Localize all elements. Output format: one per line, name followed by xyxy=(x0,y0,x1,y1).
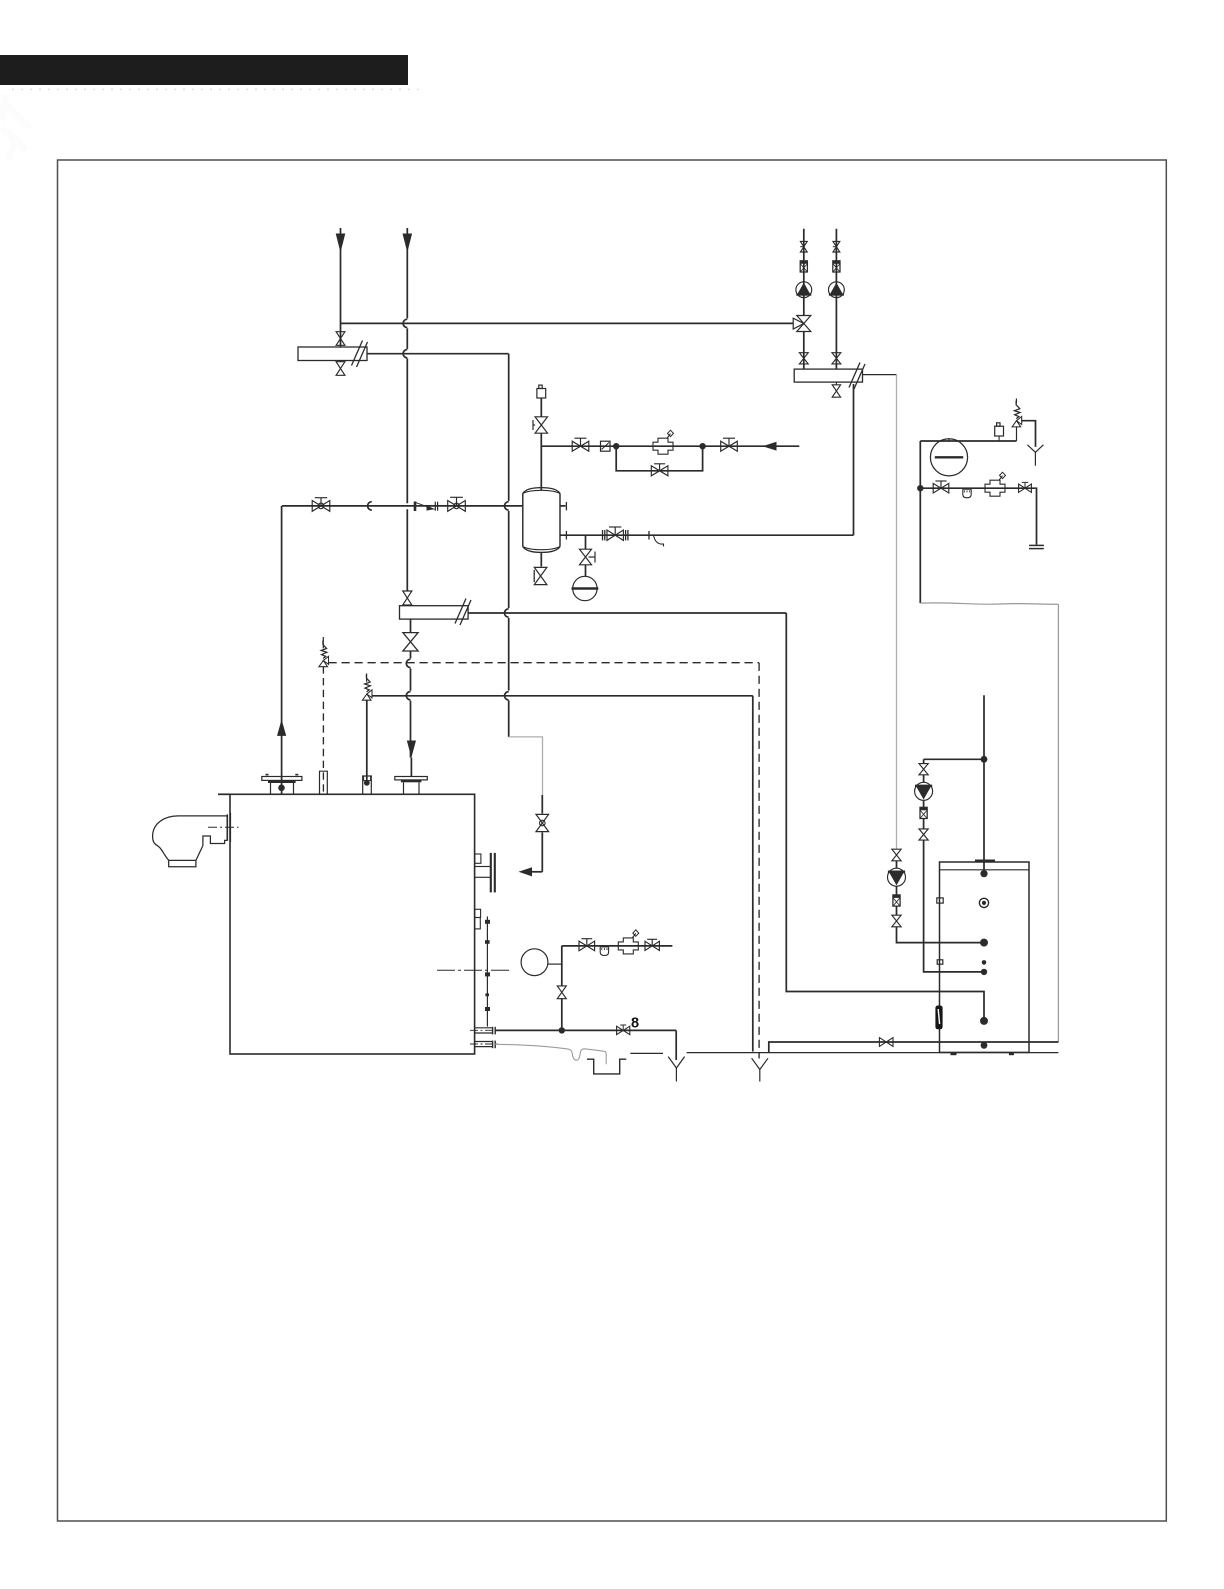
branch1 check valve xyxy=(920,807,927,818)
branch2 valve upper xyxy=(892,849,901,861)
wire: system riser 2 (x=407) xyxy=(406,228,408,318)
node: drain tee xyxy=(559,1027,565,1033)
wire: DHW tank top stub xyxy=(983,695,985,873)
tank heating element xyxy=(935,1006,942,1030)
wire: downcomer jog to boiler return-in (gray) xyxy=(509,737,543,795)
tank sensor well 1 xyxy=(937,898,943,903)
boiler top-left ledge xyxy=(218,793,230,795)
header B (system header) xyxy=(794,369,862,382)
flow arrow into boiler side flange xyxy=(519,867,533,876)
valve on fill drop xyxy=(557,986,566,999)
wire: supply-out line to separator xyxy=(282,505,523,507)
fill strainer xyxy=(600,947,608,956)
flow arrow down riser 2 xyxy=(403,234,413,253)
flow meter xyxy=(601,441,611,451)
drain hose (gray) xyxy=(495,1044,606,1064)
node: fill line tee xyxy=(917,485,923,491)
fill valve 2 xyxy=(645,941,659,950)
wire: header B slash drop to air separator xyxy=(853,384,855,535)
wire: cold water feed drop xyxy=(919,441,921,603)
hop: downcomer over header C line xyxy=(505,609,509,617)
auto air vent on expansion line xyxy=(995,426,1004,436)
branch1 valve lower xyxy=(919,829,928,840)
hop: riser2 over header A line xyxy=(403,350,407,358)
flow arrow into make-up line xyxy=(763,442,777,451)
wire: DHW loop from header C xyxy=(786,613,984,1021)
wire: boiler relief tapping riser xyxy=(366,700,368,783)
wire: boiler return riser xyxy=(410,651,412,658)
node: PRV outlet xyxy=(699,443,705,449)
valve on separator top pipe xyxy=(535,417,547,433)
wire: relief discharge drop xyxy=(752,696,754,1052)
wire: air separator top pipe xyxy=(540,398,542,417)
floor line segment xyxy=(630,1052,663,1054)
make-up shutoff valve xyxy=(572,441,589,451)
wire: dashed drop to boiler tapping xyxy=(322,666,324,792)
floor line right xyxy=(687,1052,1059,1054)
funnel 2 (dashed line drain) xyxy=(752,1058,760,1069)
fill valve B xyxy=(1019,484,1032,492)
expansion tank xyxy=(948,438,950,441)
boiler supply flange (top) xyxy=(262,777,302,781)
zone1 isolation valve xyxy=(800,241,807,252)
bypass valve xyxy=(651,466,668,476)
wire: boiler drain line xyxy=(495,1029,676,1031)
check valve on supply-out xyxy=(414,502,417,512)
flanged ball valve on separator outlet xyxy=(607,530,623,540)
drain valve 8 xyxy=(617,1026,630,1034)
branch2 check valve xyxy=(893,895,900,906)
boiler body xyxy=(230,794,475,1054)
wire: boiler supply riser xyxy=(281,506,283,794)
flow arrow into boiler top xyxy=(407,741,416,758)
air separator right capped stub xyxy=(560,505,566,507)
ball valve on supply-out xyxy=(448,501,466,512)
funnel 1 (floor drain) xyxy=(668,1057,676,1068)
boiler centerline xyxy=(437,969,509,971)
node: boiler supply tapping xyxy=(278,785,285,792)
zone2 lower valve xyxy=(832,353,841,364)
drain valve below header A xyxy=(336,362,345,376)
floor drain pit xyxy=(587,1059,626,1074)
header A break slashes xyxy=(352,341,363,366)
wire: riser1 to header xyxy=(340,331,342,348)
boiler return flange (top) xyxy=(395,777,428,780)
boiler drain pipe (lower) xyxy=(475,1041,493,1043)
fill shutoff valve xyxy=(579,941,595,951)
drain air-gap bars xyxy=(1029,544,1044,546)
faint watermark fragment left margin xyxy=(2,95,30,160)
valve above header C xyxy=(406,591,408,592)
node: tank port D xyxy=(982,960,987,965)
wire: header C to DHW loop xyxy=(468,612,786,614)
hop: return riser over dashed relief line xyxy=(406,659,410,667)
wire: drain drop to funnel xyxy=(675,1030,677,1060)
wire: branch2 to tank port xyxy=(897,927,985,943)
relief valve RV1 (dashed circuit) xyxy=(322,637,324,648)
wire: header B to DHW pump drop (gray) xyxy=(863,374,897,376)
wire: relief discharge horizontal xyxy=(372,695,753,697)
supply-out gate valve xyxy=(312,501,330,512)
boiler drain pipe (upper) xyxy=(475,1027,493,1029)
svg-text:8: 8 xyxy=(631,1016,639,1032)
wire: dashed relief line drop xyxy=(758,663,760,1059)
zone2 circulator pump xyxy=(829,282,845,298)
header C (boiler header) xyxy=(400,606,469,619)
page frame xyxy=(58,160,1167,1521)
hop: downcomer over supply-out line xyxy=(505,502,509,510)
air separator tank xyxy=(522,494,524,547)
branch1 pump xyxy=(915,782,933,800)
flow arrow up supply riser xyxy=(277,719,286,736)
hop: riser2 over supply main xyxy=(403,319,407,327)
wire: cold fill line xyxy=(920,487,1035,489)
funnel 3 (relief drain) xyxy=(1027,445,1035,453)
fill valve A xyxy=(933,483,949,493)
valve on boiler return-in xyxy=(536,814,549,831)
wire: header A to downcomer xyxy=(367,353,509,355)
valve on separator drop xyxy=(580,549,592,565)
wire: zone line 1 (x=804) xyxy=(803,229,805,316)
balancing valve below header C xyxy=(403,633,418,651)
wire: cold water feed right drop (gray) xyxy=(1057,604,1059,1042)
separator drain valve xyxy=(540,553,542,567)
node: tank port C xyxy=(980,939,988,947)
node: tank port A xyxy=(980,870,987,877)
wire: expansion line xyxy=(920,440,1016,442)
wire: header C down to boiler return riser xyxy=(410,619,412,633)
wire: supply main to 3-way valve xyxy=(341,322,794,324)
boiler pressure gauge xyxy=(521,949,548,976)
auto air vent on separator xyxy=(537,389,546,399)
pipe break mark on supply-out line xyxy=(368,502,372,510)
fill PRV xyxy=(985,480,1005,496)
drain valve below header B xyxy=(835,382,837,384)
node: PRV inlet xyxy=(613,443,619,449)
flow arrow down riser 1 xyxy=(336,234,346,253)
relief valve RV2 (boiler relief) xyxy=(366,674,368,682)
node: branch tee xyxy=(981,756,988,763)
DHW tank drain valve xyxy=(879,1038,893,1047)
node: tank port G xyxy=(981,1042,988,1049)
wire: downcomer (x=508) xyxy=(508,354,510,501)
zone2 isolation valve xyxy=(833,241,840,252)
temperature gauge under separator xyxy=(585,565,587,576)
wire: RV3 discharge xyxy=(1021,421,1035,447)
hop: return riser over relief discharge line xyxy=(406,692,410,700)
tank port B (aquastat) xyxy=(979,898,988,907)
wire: DHW tank drain line xyxy=(769,1042,1059,1053)
header A (low-loss header) xyxy=(298,347,367,361)
tank sensor well 2 xyxy=(937,960,943,964)
wire: branch1 to tank mid port xyxy=(924,840,984,972)
wire: make-up water line xyxy=(541,445,799,447)
branch2 pump xyxy=(888,868,906,886)
zone1 circulator pump xyxy=(796,282,812,298)
boiler tapping 2 (relief, dashed) xyxy=(320,771,328,794)
hop: downcomer over relief discharge xyxy=(505,692,509,700)
pressure reducing valve xyxy=(653,438,673,454)
burner assembly xyxy=(153,816,228,867)
wire: gauge/fill drop xyxy=(561,946,563,1031)
wire: PRV bypass xyxy=(616,446,702,471)
wire: zone1 valve to header B xyxy=(803,332,805,370)
zone1 lower valve xyxy=(799,353,808,364)
wire: cold water feed jog (gray) xyxy=(920,603,1058,604)
valve above header A xyxy=(336,332,345,346)
relief valve RV3 xyxy=(1015,399,1017,404)
make-up valve 2 xyxy=(721,441,738,451)
boiler side flange (DHW return in) xyxy=(475,854,481,863)
fill strainer B xyxy=(963,489,971,498)
3-way mixing valve xyxy=(797,316,811,332)
wire: separator drop line xyxy=(585,535,587,549)
wire: tank pump branch1 top xyxy=(924,758,984,760)
header C break slashes xyxy=(455,599,466,624)
zone1 check valve xyxy=(800,261,807,272)
node: tank port E xyxy=(981,969,987,975)
wire: zone line 2 (x=836) xyxy=(835,229,837,369)
burner centerline xyxy=(208,826,239,828)
title bar (redacted) xyxy=(0,55,408,85)
boiler tapping 3 (relief) xyxy=(363,776,372,794)
wire: tank return drop to boiler xyxy=(541,795,543,814)
DHW indirect tank xyxy=(940,862,1030,1052)
zone2 check valve xyxy=(833,261,840,272)
wire: system riser 1 (x=340) xyxy=(340,228,342,331)
wire: boiler fill line xyxy=(562,945,673,947)
node: tank port F xyxy=(980,1017,988,1025)
union and drain hook xyxy=(648,531,650,540)
water gauge set on boiler xyxy=(475,909,481,917)
faint dotted rule under title bar xyxy=(12,89,419,91)
wire: dashed relief line horizontal xyxy=(329,662,760,664)
header B break slashes xyxy=(849,363,860,388)
fill pressure reducing valve xyxy=(618,938,638,954)
branch1 valve upper xyxy=(919,764,928,775)
branch2 valve lower xyxy=(892,915,901,927)
wire: fill drop to drain xyxy=(1035,488,1036,544)
